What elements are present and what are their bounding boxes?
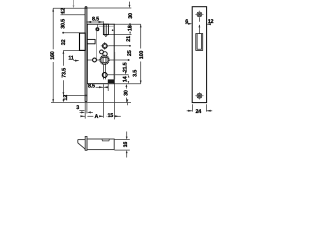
svg-text:32: 32 [61,39,67,45]
svg-text:21: 21 [126,36,132,42]
svg-text:12: 12 [208,19,214,25]
svg-text:160: 160 [50,51,56,60]
svg-text:30.5: 30.5 [60,19,66,29]
svg-text:25: 25 [127,50,133,56]
svg-text:18: 18 [128,25,134,31]
svg-text:16: 16 [123,142,129,148]
svg-text:3: 3 [76,105,79,111]
svg-text:73.5: 73.5 [62,68,68,78]
svg-text:8.5: 8.5 [88,84,95,90]
svg-text:6: 6 [185,19,188,25]
svg-text:30: 30 [124,90,130,96]
svg-text:21.5: 21.5 [122,62,128,72]
svg-text:3.5: 3.5 [132,70,138,77]
svg-text:30: 30 [128,13,134,19]
svg-text:12: 12 [63,95,69,101]
svg-text:24: 24 [195,109,201,115]
svg-text:100: 100 [139,51,145,60]
svg-text:15: 15 [107,113,113,119]
svg-text:14: 14 [123,76,129,82]
svg-text:12: 12 [61,8,67,14]
svg-text:A: A [94,114,98,120]
svg-text:8.5: 8.5 [92,17,99,23]
svg-text:11: 11 [68,56,74,62]
